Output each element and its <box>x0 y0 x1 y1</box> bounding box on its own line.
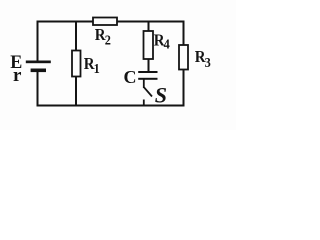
wire R1 branch <box>75 22 77 106</box>
battery E r <box>26 61 51 73</box>
wire right <box>183 21 185 107</box>
wire capacitor to switch <box>143 80 145 89</box>
svg-text:R3: R3 <box>195 48 211 70</box>
svg-text:R4: R4 <box>154 32 170 52</box>
wire R4-capacitor branch <box>148 22 150 72</box>
switch S lower contact <box>143 100 145 107</box>
svg-text:R2: R2 <box>95 26 111 47</box>
wire left lower <box>37 71 39 107</box>
svg-text:S: S <box>155 83 167 108</box>
resistor R3 <box>179 45 188 70</box>
resistor R2 <box>93 18 117 26</box>
wire left upper (node +) <box>37 21 39 62</box>
svg-text:C: C <box>124 67 137 87</box>
capacitor C plates <box>138 71 157 80</box>
svg-text:R1: R1 <box>84 55 100 76</box>
resistor R4 <box>144 31 154 59</box>
wire bottom <box>37 105 185 107</box>
resistor R1 <box>72 51 81 77</box>
wire top <box>37 21 185 23</box>
svg-text:r: r <box>13 65 22 86</box>
switch S blade <box>144 87 152 96</box>
